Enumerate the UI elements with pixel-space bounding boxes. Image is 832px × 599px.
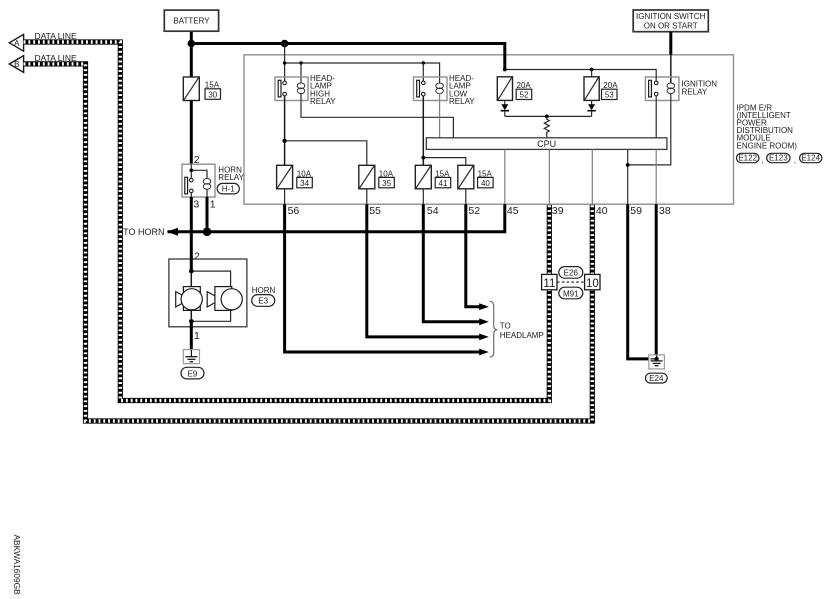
fuse F52 20A <box>497 77 531 101</box>
wire relay supply bus y63 <box>284 44 286 82</box>
fuse F35 10A <box>359 165 395 189</box>
svg-text:E9: E9 <box>188 369 198 378</box>
svg-text:1: 1 <box>194 330 200 342</box>
wire low relay coil to CPU <box>439 93 441 138</box>
arrow to headlamp 3 <box>479 334 489 341</box>
wire CPU to pin 45 <box>504 149 506 204</box>
junction low relay contact <box>422 61 425 64</box>
wire diode join y116.4 <box>505 115 592 117</box>
wire pin 56 to headlamp arrow <box>285 204 481 352</box>
wire CPU to pin 38 <box>655 149 657 204</box>
wire fuse41 to pin 54 <box>422 189 424 204</box>
svg-text:30: 30 <box>208 90 217 99</box>
TO HORN arrow <box>167 228 178 236</box>
svg-text:M91: M91 <box>563 289 579 298</box>
connector E24 oval <box>646 373 668 383</box>
svg-text:TO: TO <box>500 322 511 331</box>
junction horn top <box>189 269 194 274</box>
pin 11 square <box>542 274 557 289</box>
svg-text:RELAY: RELAY <box>449 97 475 106</box>
svg-text:E26: E26 <box>564 269 579 278</box>
ground symbol E9 <box>183 350 199 364</box>
svg-text:CPU: CPU <box>537 139 556 149</box>
junction fuse41 feed <box>421 156 425 160</box>
wire CPU to pin 40 <box>591 149 593 204</box>
wire high relay coil to CPU <box>301 93 453 138</box>
diode D1 under fuse 52 <box>501 100 509 116</box>
wire high relay coil top pin <box>300 63 302 83</box>
fuse F30 15A <box>183 77 220 101</box>
wire horn to ground E9 <box>190 327 193 351</box>
ignition switch box <box>633 10 708 32</box>
wire fuse53 top pin <box>591 70 593 77</box>
svg-text:RELAY: RELAY <box>310 97 336 106</box>
wire horn relay pin1 (coil) to TO HORN line <box>206 189 208 197</box>
resistor R1 to CPU <box>544 116 549 137</box>
wire pin 59 to ground E24 <box>628 204 650 359</box>
wire fuse35 to pin 55 <box>366 189 368 204</box>
svg-text:40: 40 <box>596 205 608 217</box>
wire ignition switch feed <box>669 32 672 55</box>
wire pin 54 to headlamp arrow <box>423 204 480 322</box>
wire CAN data line B (checkered) <box>24 64 593 421</box>
relay U1 headlamp high relay <box>275 74 336 106</box>
node A data line arrow <box>9 31 77 51</box>
svg-text:E24: E24 <box>649 374 664 383</box>
connector E3 oval <box>252 295 275 307</box>
wire CPU to pin 39 <box>548 149 550 204</box>
connector join dashes <box>557 281 585 283</box>
svg-text:11: 11 <box>543 278 555 290</box>
junction horn bottom <box>189 319 194 324</box>
horn speaker left <box>176 287 203 311</box>
diode D2 under fuse 53 <box>587 100 595 116</box>
svg-text:35: 35 <box>382 179 391 188</box>
node B data line arrow <box>9 53 77 72</box>
pin 10 square <box>585 274 600 289</box>
svg-text:1: 1 <box>210 199 216 211</box>
svg-text:A: A <box>14 39 20 48</box>
junction high relay coil <box>299 61 302 64</box>
wire pin 52 to headlamp arrow <box>466 204 480 307</box>
junction battery/fuse30 <box>188 40 196 48</box>
svg-text:41: 41 <box>439 179 448 188</box>
arrow to headlamp 4 <box>479 349 489 356</box>
wire low relay contact top pin <box>422 63 424 81</box>
svg-text:39: 39 <box>552 205 564 217</box>
junction battery/relay feed <box>281 40 289 48</box>
connector E123 oval <box>767 153 796 164</box>
wire fuse34 to pin 56 <box>284 189 286 204</box>
svg-text:54: 54 <box>427 205 439 217</box>
svg-text:38: 38 <box>659 205 671 217</box>
connector E122 oval <box>737 153 764 164</box>
wire horn internal top <box>190 258 193 272</box>
fuse F41 15A <box>415 165 450 189</box>
svg-text:52: 52 <box>468 205 480 217</box>
horn E3 assembly box <box>169 259 247 327</box>
svg-text:BATTERY: BATTERY <box>173 17 210 26</box>
wire pin 55 to headlamp arrow <box>367 204 480 337</box>
svg-text:2: 2 <box>194 154 200 166</box>
svg-text:B: B <box>14 60 19 69</box>
connector E124 oval <box>800 153 822 162</box>
fuse F40 15A <box>458 165 493 189</box>
connector M91 oval <box>559 287 583 299</box>
wire pin 38 to ground E24 <box>655 204 658 356</box>
svg-text:53: 53 <box>605 91 614 100</box>
svg-text:E123: E123 <box>769 154 788 163</box>
wire fuse52/53 supply y69.5 <box>505 70 656 82</box>
svg-text:TO HORN: TO HORN <box>123 227 164 237</box>
wire horn relay pin3 to horn <box>190 193 192 197</box>
svg-text:IGNITION SWITCH: IGNITION SWITCH <box>636 12 706 21</box>
svg-text:,: , <box>794 156 796 165</box>
junction pin 59 / ignition coil <box>626 163 630 167</box>
horn speaker right <box>207 287 242 311</box>
relay U3 ignition relay <box>645 77 717 101</box>
IPDM E/R name text <box>737 103 798 150</box>
svg-text:34: 34 <box>300 179 309 188</box>
svg-text:ENGINE ROOM): ENGINE ROOM) <box>737 141 798 150</box>
svg-text:55: 55 <box>369 205 381 217</box>
svg-text:52: 52 <box>520 91 529 100</box>
junction high relay contact <box>283 61 286 64</box>
svg-text:E122: E122 <box>738 154 757 163</box>
svg-text:ON OR START: ON OR START <box>644 22 698 31</box>
wire TO HORN line <box>168 230 505 233</box>
CPU box <box>426 138 667 150</box>
svg-text:3: 3 <box>193 199 199 211</box>
relay U2 headlamp low relay <box>414 74 476 106</box>
wire CAN data line A (checkered) <box>24 42 550 401</box>
IPDM E/R module box <box>244 55 734 204</box>
battery B+ bus wire <box>190 31 193 77</box>
relay K1 horn relay <box>182 164 245 197</box>
battery box <box>164 10 218 31</box>
wire horn internal bottom <box>191 310 230 321</box>
svg-text:RELAY: RELAY <box>682 87 708 96</box>
junction fuse52 <box>503 68 507 72</box>
wire ignition relay coil to pin 59 <box>628 93 671 165</box>
wire high relay contact to fuses 34/35 <box>284 96 286 165</box>
svg-text:45: 45 <box>507 205 519 217</box>
brace TO HEADLAMP <box>490 301 498 357</box>
ground symbol E24 <box>649 355 665 369</box>
junction horn relay coil / TO HORN <box>203 228 212 237</box>
arrow to headlamp 1 <box>479 303 489 310</box>
wire low relay contact to fuses 41/40 <box>422 96 424 165</box>
svg-text:59: 59 <box>630 205 642 217</box>
svg-text:HORN: HORN <box>252 286 276 295</box>
svg-text:40: 40 <box>481 179 490 188</box>
connector E9 oval <box>181 367 204 379</box>
wire ignition relay contact to CPU <box>655 96 657 138</box>
junction resistor tap <box>545 115 549 119</box>
wire pin45 drop to TO HORN <box>503 204 506 233</box>
svg-text:E124: E124 <box>801 154 820 163</box>
junction fuse34 feed <box>282 139 286 143</box>
svg-text:10: 10 <box>586 278 599 290</box>
svg-text:56: 56 <box>288 205 300 217</box>
svg-text:,: , <box>761 156 763 165</box>
svg-text:HEADLAMP: HEADLAMP <box>500 331 544 340</box>
wire fuse40 to pin 52 <box>465 189 467 204</box>
svg-text:ABKWA1609GB: ABKWA1609GB <box>12 535 22 596</box>
wire fuse30 to horn relay <box>190 101 193 165</box>
arrow to headlamp 2 <box>479 318 489 325</box>
connector E26 oval <box>559 267 583 279</box>
fuse F34 10A <box>277 165 313 189</box>
svg-text:2: 2 <box>194 251 200 263</box>
junction fuse53 <box>590 68 594 72</box>
svg-text:RELAY: RELAY <box>218 173 244 182</box>
svg-text:H-1: H-1 <box>222 185 235 194</box>
svg-text:15A: 15A <box>205 80 220 89</box>
wire CPU to pin 59 <box>627 149 629 204</box>
svg-text:E3: E3 <box>258 297 268 306</box>
fuse F53 20A <box>584 77 618 101</box>
